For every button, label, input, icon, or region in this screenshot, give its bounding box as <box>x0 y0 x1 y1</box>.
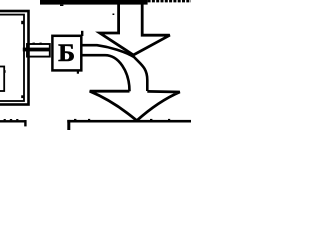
big block arrow pointing down from top bar <box>100 3 170 55</box>
bottom-left box right edge <box>24 120 26 126</box>
thick top border bar <box>40 0 148 5</box>
dashed thin top border line <box>148 0 191 2</box>
big arrowhead of curved band pointing down to bottom box <box>90 91 180 120</box>
bottom-left box top edge (cut by image edge) <box>0 120 26 122</box>
block B (solid border box) <box>52 36 81 71</box>
curved wire from block B (lower), inner edge of curved band <box>81 55 129 91</box>
curved wire from block B (upper), outer edge of curved band <box>81 45 147 91</box>
bus link thick middle wire <box>23 48 51 52</box>
wide bottom box left edge <box>67 120 70 130</box>
wide bottom box top edge <box>67 120 191 123</box>
svg-text:Б: Б <box>58 38 75 67</box>
tick on inner frame right edge, lower <box>21 95 24 98</box>
tiny tick below block B bottom edge <box>77 71 79 73</box>
nub under bar <box>60 5 63 6</box>
left subsystem block, outer frame (cut by left edge) <box>0 11 29 105</box>
small sub-block inside left block (cut by left edge) <box>0 67 4 92</box>
tick on inner frame right edge, upper <box>21 21 24 24</box>
bus link frame between left block and block B <box>27 44 50 57</box>
nubs above bus <box>33 43 35 44</box>
tick on sub-block right edge <box>4 70 6 73</box>
scan nubs on bottom line <box>74 119 76 120</box>
left subsystem block, inner frame <box>0 15 24 101</box>
scan nubs on box A top edge <box>4 119 6 120</box>
scan speck <box>113 14 115 16</box>
short stub wire above block B top-right corner <box>81 31 83 36</box>
